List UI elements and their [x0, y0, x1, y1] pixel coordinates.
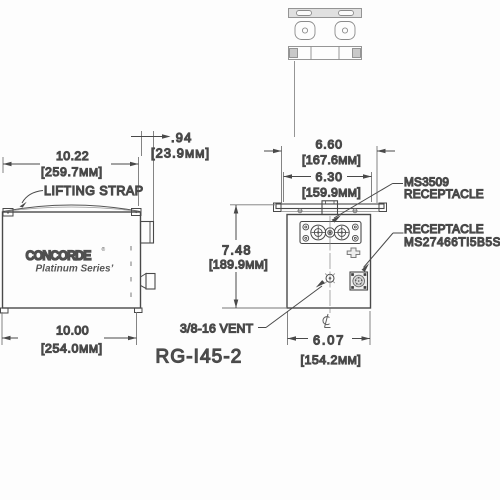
svg-text:CONCORDE: CONCORDE — [26, 248, 92, 264]
MS3509 receptacle plate — [300, 222, 361, 244]
receptacle post cluster outline — [311, 225, 349, 240]
top-left corner tab with rivet — [3, 209, 13, 217]
vent fitting block (left view right side, lower) — [141, 274, 156, 290]
top-right corner tab with rivet — [132, 209, 142, 216]
svg-text:RECEPTACLE: RECEPTACLE — [404, 222, 484, 236]
svg-text:MS27466TI5B5S: MS27466TI5B5S — [404, 235, 500, 249]
centerline symbol — [323, 314, 331, 328]
svg-text:[254.0MM]: [254.0MM] — [41, 342, 103, 356]
svg-text:[189.9MM]: [189.9MM] — [209, 258, 268, 272]
dimension .94 [23.9MM] — [131, 130, 210, 221]
mounting flange (right view) — [274, 203, 387, 212]
svg-text:.94: .94 — [171, 130, 192, 145]
terminal block (left view right side, upper) — [141, 222, 154, 244]
svg-text:7.48: 7.48 — [222, 243, 252, 258]
dimension 10.00 [254.0MM] — [2, 312, 137, 356]
svg-text:LIFTING STRAP: LIFTING STRAP — [44, 184, 144, 198]
svg-text:[259.7MM]: [259.7MM] — [41, 165, 103, 179]
RG-145-2 part number — [156, 347, 243, 368]
svg-text:[154.2MM]: [154.2MM] — [301, 353, 362, 367]
RECEPTACLE MS27466TI5B5S label with leader — [362, 222, 500, 272]
hidden dashed line inside left box — [130, 246, 132, 305]
LIFTING STRAP label with leader — [20, 184, 144, 208]
polarity plus symbol — [347, 248, 360, 258]
flange slot mark left — [298, 209, 303, 213]
Platinum Series script text — [36, 264, 114, 275]
center post — [328, 230, 332, 234]
right post — [335, 226, 348, 239]
svg-text:®: ® — [102, 246, 106, 253]
svg-text:[23.9MM]: [23.9MM] — [151, 146, 210, 161]
lifting strap (left view top arc) — [3, 205, 140, 212]
MS3509 connector shell on flange — [322, 201, 338, 215]
svg-text:[167.6MM]: [167.6MM] — [302, 153, 361, 167]
CONCORDE logo — [26, 246, 106, 263]
svg-text:10.22: 10.22 — [56, 149, 89, 163]
bottom-right foot — [135, 308, 143, 313]
dimension 10.22 [259.7MM] — [3, 149, 139, 206]
svg-text:6.30: 6.30 — [316, 170, 343, 184]
svg-text:6.07: 6.07 — [313, 333, 345, 348]
dimension 6.60 [167.6MM] — [264, 138, 395, 204]
svg-text:3/8-16 VENT: 3/8-16 VENT — [180, 322, 254, 336]
flange slot mark right — [353, 209, 358, 213]
3/8-16 VENT label with leader — [180, 280, 325, 335]
dimension 7.48 [189.9MM] — [209, 205, 286, 308]
hold-down bracket detail (top right) — [289, 9, 362, 60]
svg-text:Platinum Series’: Platinum Series’ — [36, 264, 114, 275]
bottom-left foot — [1, 308, 9, 313]
svg-text:RECEPTACLE: RECEPTACLE — [404, 187, 484, 201]
square receptacle MS27466 — [350, 272, 368, 290]
battery box (right view) — [287, 215, 371, 309]
vent hole — [325, 274, 335, 284]
battery box (left view) — [3, 212, 141, 308]
MS3509 RECEPTACLE label with leader — [332, 175, 484, 223]
dimension 6.07 [154.2MM] — [288, 311, 371, 367]
svg-text:10.00: 10.00 — [56, 324, 89, 338]
bracket extension line down — [294, 61, 296, 137]
svg-text:[159.9MM]: [159.9MM] — [302, 186, 361, 200]
svg-text:RG-I45-2: RG-I45-2 — [156, 347, 243, 368]
left post — [312, 226, 325, 239]
dimension 6.30 [159.9MM] — [284, 170, 372, 202]
svg-text:6.60: 6.60 — [316, 138, 343, 152]
vertical centerline (dashed) — [329, 216, 331, 313]
